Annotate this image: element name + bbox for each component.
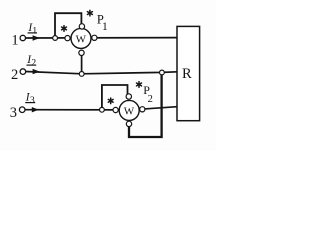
terminal circle P2 left — [113, 107, 118, 112]
terminal circle P1 left — [65, 36, 70, 41]
terminal circle P1 right — [92, 35, 97, 40]
asterisk voltage coil P2 — [137, 82, 142, 88]
current arrow I3 — [32, 107, 39, 112]
svg-text:2: 2 — [148, 94, 153, 105]
terminal circle P1 bottom — [79, 50, 84, 55]
wire from P2 bottom terminal around to line 2 — [129, 72, 162, 137]
label P1 — [97, 13, 108, 33]
terminal 2 circle — [20, 69, 26, 75]
terminal circle P2 right — [140, 107, 145, 112]
asterisk voltage coil P1 — [87, 10, 92, 16]
node junction on line 2 (P1 voltage coil) — [79, 72, 84, 77]
label I1 — [27, 22, 37, 36]
label P2 — [143, 83, 153, 105]
svg-text:1: 1 — [11, 33, 18, 49]
terminal circle P1 top — [79, 24, 84, 29]
terminal circle P2 bottom — [126, 121, 131, 126]
svg-text:R: R — [182, 66, 192, 82]
node junction on line 2 (P2 voltage coil) — [160, 70, 165, 75]
svg-text:3: 3 — [10, 105, 17, 121]
svg-text:3: 3 — [30, 96, 35, 106]
wire voltage-coil loop of wattmeter P1 — [55, 13, 81, 38]
svg-text:W: W — [76, 33, 87, 45]
wire voltage-coil loop of wattmeter P2 — [102, 85, 128, 110]
wattmeter P1 main circle — [71, 28, 91, 48]
wattmeter P2 main circle — [119, 100, 139, 120]
asterisk current coil P2 — [108, 98, 113, 104]
node junction on line 1 (loop tap) — [53, 36, 58, 41]
svg-text:1: 1 — [102, 21, 108, 33]
label I3 — [25, 92, 35, 107]
label I2 — [26, 54, 36, 68]
wire line 1 (phase 1 from terminal to load) — [26, 37, 178, 39]
svg-text:1: 1 — [32, 26, 37, 36]
current arrow I2 — [33, 69, 40, 74]
current arrow I1 — [33, 35, 40, 40]
wire line 2 (phase 2 from terminal to load) — [26, 72, 177, 74]
terminal 3 circle — [19, 107, 25, 113]
terminal circle P2 top — [126, 94, 131, 99]
wire from P1 bottom terminal down to line 2 — [81, 54, 83, 74]
wire line 3 (phase 3 from terminal to load) — [25, 107, 177, 110]
asterisk current coil P1 — [62, 26, 67, 32]
terminal 1 circle — [20, 35, 25, 40]
svg-text:2: 2 — [31, 59, 36, 69]
svg-text:2: 2 — [11, 67, 18, 83]
node junction on line 3 (loop tap) — [100, 107, 105, 112]
svg-text:W: W — [124, 105, 135, 117]
resistor load box R — [177, 26, 200, 120]
